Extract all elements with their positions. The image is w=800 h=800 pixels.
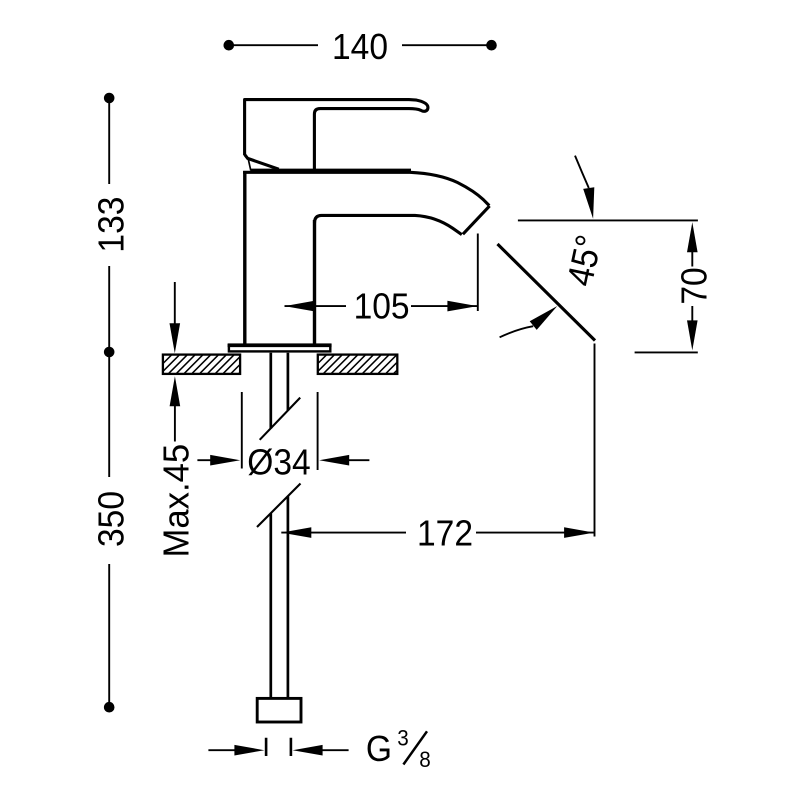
svg-text:105: 105: [354, 286, 410, 327]
faucet body and spout outer edge: [243, 172, 489, 205]
svg-text:350: 350: [91, 491, 132, 547]
spout tip face: [463, 206, 490, 234]
dimension 350 left: [91, 357, 132, 713]
G3/8 connector block: [257, 698, 301, 722]
svg-text:3: 3: [397, 724, 409, 750]
svg-text:70: 70: [674, 267, 715, 304]
body column right edge: [313, 220, 316, 344]
45 degree leader arc upper: [575, 156, 594, 219]
faucet handle lever: [245, 100, 428, 171]
45 degree aerator line: [498, 244, 596, 341]
base flange: [228, 345, 332, 352]
supply pipe right edge: [287, 353, 290, 699]
dimension 172: [281, 344, 594, 554]
svg-text:45°: 45°: [560, 231, 610, 289]
svg-text:172: 172: [417, 513, 473, 554]
dimension diameter 34: [197, 392, 369, 483]
svg-text:Max.45: Max.45: [155, 444, 196, 558]
dimension 133 left: [91, 93, 132, 357]
faucet handle seam bar: [251, 169, 411, 173]
dimension G 3/8: [208, 724, 430, 772]
svg-text:Ø34: Ø34: [247, 442, 310, 483]
dimension 105: [285, 234, 478, 327]
45 degree leader arc lower: [500, 306, 558, 337]
svg-text:G: G: [366, 729, 392, 770]
pipe break slash lower: [257, 484, 301, 528]
countertop left slab with hatching: [163, 355, 240, 374]
spout inner edge: [315, 215, 462, 234]
dimension Max.45: [155, 282, 196, 558]
dimension 70: [518, 220, 715, 352]
svg-text:8: 8: [419, 746, 431, 772]
body column left edge: [243, 171, 246, 344]
svg-text:133: 133: [91, 197, 132, 253]
pipe break slash upper: [260, 398, 301, 440]
supply pipe left edge: [269, 353, 272, 699]
svg-text:140: 140: [332, 27, 388, 68]
countertop right slab with hatching: [318, 355, 398, 374]
dimension 140 top: [224, 27, 496, 68]
